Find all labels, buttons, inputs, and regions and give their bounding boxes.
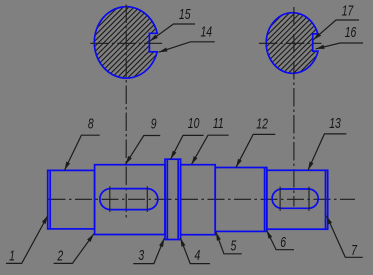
slot 6 left arc center mark [279,187,281,211]
arrowhead 5 [216,232,221,241]
leader line 4 [180,238,210,264]
leader line 1 [6,215,48,263]
slot 2 right arc center mark [146,186,148,212]
svg-text:16: 16 [345,25,357,41]
section 6 chamfer line [325,170,327,229]
slot 2 left arc center mark [109,186,111,212]
leader line 2 [54,234,94,264]
shaft section 5 [215,168,267,232]
arrowhead 9 [126,156,132,164]
left section view hatch [94,7,157,78]
leader line 3 [133,238,164,263]
arrowhead 3 [159,238,164,247]
svg-text:12: 12 [256,116,268,132]
left circle horizontal centerline [90,42,162,44]
shaft section 1 [48,170,95,229]
arrowhead 6 [267,230,273,239]
svg-text:9: 9 [151,116,157,132]
right circle vertical centerline down to shaft [293,7,295,207]
leader line 11 [191,135,228,164]
arrowhead 16 [316,45,325,49]
svg-text:6: 6 [280,234,287,250]
svg-text:2: 2 [57,248,64,264]
shaft section 4 [181,165,216,235]
arrowhead 14 [159,48,168,53]
leader line 14 [159,42,215,52]
leader line 12 [236,134,275,167]
leader line 15 [150,24,195,41]
arrowhead 4 [180,238,185,247]
svg-text:17: 17 [342,3,354,19]
right circle horizontal centerline [259,42,322,44]
arrowhead 17 [313,33,321,40]
leader line 8 [65,135,100,170]
collar section 3 [165,159,181,239]
arrowhead 11 [191,156,197,165]
svg-text:1: 1 [9,248,15,264]
right section view outline with keyway notch [266,13,318,74]
arrowhead 12 [236,159,242,168]
section 1 chamfer line [49,170,51,229]
leader line 9 [126,136,161,165]
leader line 7 [327,216,363,257]
arrowhead 7 [327,216,332,225]
svg-text:3: 3 [138,247,144,263]
leader line 10 [171,135,204,159]
leader line 16 [316,43,363,49]
svg-text:8: 8 [88,116,94,132]
svg-text:10: 10 [188,116,200,132]
arrowhead 13 [308,162,314,171]
leader line 13 [308,134,346,170]
keyway slot on section 6 [272,189,318,208]
slot 6 right arc center mark [308,187,310,211]
leader line 17 [313,20,359,40]
arrowhead 15 [150,35,158,42]
arrowhead 1 [42,215,48,224]
collar left chamfer line [166,159,168,239]
svg-text:13: 13 [329,115,341,131]
svg-text:11: 11 [213,116,224,132]
shaft section 6 [267,170,328,229]
arrowhead 10 [171,151,177,160]
arrowhead 2 [87,234,94,242]
leader line 5 [216,232,242,254]
svg-text:15: 15 [179,6,191,22]
arrowhead 8 [65,162,71,171]
svg-text:14: 14 [200,24,212,40]
svg-text:5: 5 [230,238,237,254]
right section view hatch [266,13,318,74]
shaft axis centerline [49,198,356,200]
shaft section 2 [95,165,165,235]
left section view outline with keyway notch [94,7,157,78]
section 5 right chamfer line [264,168,266,232]
collar right chamfer line [177,159,179,239]
svg-text:4: 4 [194,247,200,263]
left circle vertical centerline down to shaft [125,5,127,221]
keyway slot on section 2 [100,189,158,210]
svg-text:7: 7 [351,242,358,258]
leader line 6 [267,230,294,250]
